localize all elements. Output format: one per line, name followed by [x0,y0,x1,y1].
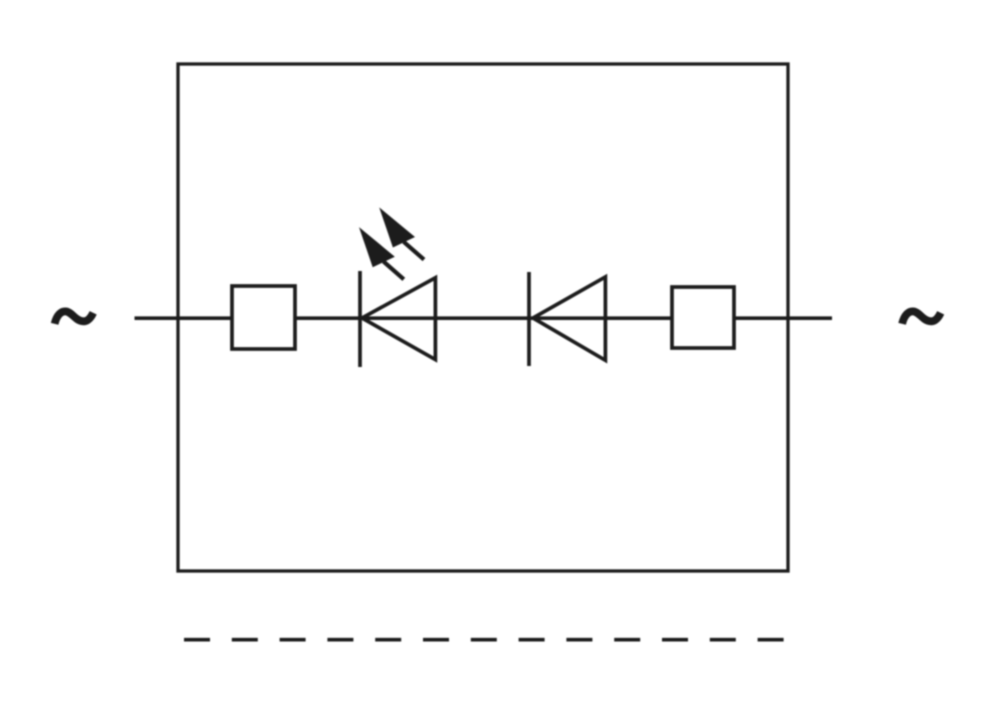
LED D1 emission arrow lower-left [359,227,404,279]
enclosure box (module outline) [178,64,788,571]
AC symbol left (~) [55,311,94,323]
AC symbol right (~) [902,311,941,323]
terminal square right [672,287,734,348]
wire main horizontal conductor [135,316,833,320]
diode D2 triangle [533,277,605,360]
LED D1 emission arrow upper-right [379,207,424,259]
dashed separator line [184,638,784,642]
LED D1 triangle [362,278,435,360]
diode D2 cathode bar [527,272,531,366]
terminal square left [232,286,295,349]
LED D1 cathode bar [358,271,362,367]
